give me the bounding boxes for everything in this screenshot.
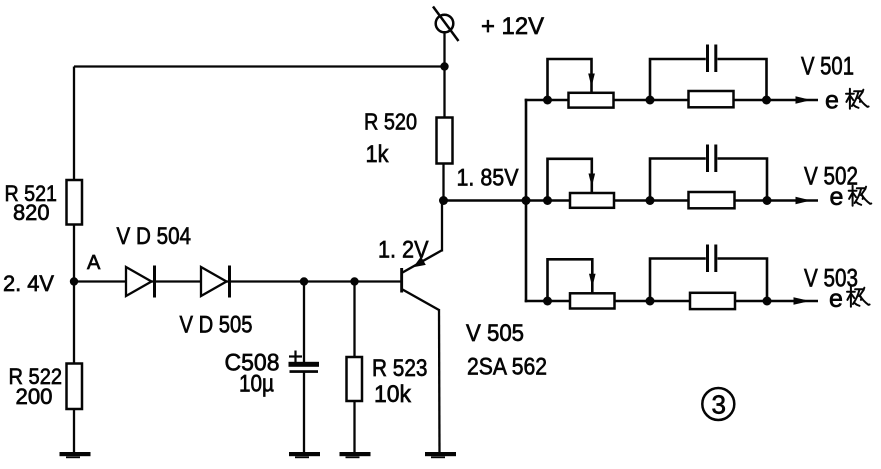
potentiometer row3 wiper arrow xyxy=(589,274,596,288)
figure number circled 3 xyxy=(702,388,734,420)
svg-text:2SA 562: 2SA 562 xyxy=(467,354,547,381)
svg-text:V 505: V 505 xyxy=(466,320,524,347)
wire C508 top lead xyxy=(303,282,305,363)
glyph ji row3 xyxy=(847,287,870,307)
ground for left rail xyxy=(60,452,91,458)
svg-text:V D 504: V D 504 xyxy=(117,223,192,250)
capacitor row3 xyxy=(650,245,767,302)
wire top rail horizontal xyxy=(74,65,445,67)
capacitor row2 xyxy=(650,145,767,201)
potentiometer row2 body xyxy=(570,193,614,208)
wire R520 to node xyxy=(442,164,444,201)
potentiometer row2 wiper loop xyxy=(548,159,592,201)
potentiometer row1 body xyxy=(569,93,614,108)
junction dot row3 mid xyxy=(646,297,655,306)
wire C508 bottom lead xyxy=(303,372,305,453)
svg-text:e: e xyxy=(829,285,843,313)
ground for C508 xyxy=(289,452,320,458)
node 1.85V junction dot xyxy=(439,196,448,205)
node R523 junction dot xyxy=(350,277,358,285)
junction dot row1 right xyxy=(762,96,771,105)
resistor row1 xyxy=(689,91,734,107)
wire left rail lower xyxy=(73,409,75,453)
wire R523 top lead xyxy=(353,282,355,359)
svg-text:1k: 1k xyxy=(366,141,390,168)
svg-text:10µ: 10µ xyxy=(239,371,274,398)
arrow output row3 xyxy=(794,297,811,305)
glyph ji row2 xyxy=(849,186,872,206)
svg-text:R 520: R 520 xyxy=(364,109,417,135)
capacitor C508 xyxy=(289,351,320,373)
wire base line from node A to transistor base xyxy=(74,280,401,282)
transistor V505 emitter lead vertical xyxy=(441,201,443,252)
resistor row2 xyxy=(689,192,735,208)
wire left rail middle xyxy=(73,225,75,365)
svg-text:R 523: R 523 xyxy=(372,355,428,382)
svg-text:1. 2V: 1. 2V xyxy=(378,237,429,264)
resistor R522 xyxy=(67,364,83,410)
svg-text:e: e xyxy=(825,87,839,115)
potentiometer row1 wiper arrow xyxy=(588,74,595,88)
arrow output row1 xyxy=(796,96,812,104)
ground for R523 xyxy=(340,452,371,458)
svg-text:V D 505: V D 505 xyxy=(180,312,253,339)
arrow output row2 xyxy=(796,197,812,205)
wire row3 line xyxy=(525,300,818,303)
junction dot row2 pot xyxy=(543,196,552,205)
junction dot row1 mid xyxy=(646,96,655,105)
resistor R520 xyxy=(437,118,453,164)
diode VD505 xyxy=(201,266,230,298)
svg-text:+ 12V: + 12V xyxy=(481,13,545,40)
node A junction dot xyxy=(70,277,78,285)
wire R523 bottom lead xyxy=(353,401,355,453)
potentiometer row3 body xyxy=(570,293,615,308)
wire right bus vertical xyxy=(525,99,528,302)
svg-text:10k: 10k xyxy=(374,381,412,408)
node C508 junction dot xyxy=(300,277,308,285)
wire collector lead xyxy=(438,309,441,453)
svg-text:2. 4V: 2. 4V xyxy=(3,271,54,296)
wire from 1.85V node to right network xyxy=(444,199,819,202)
transistor V505 xyxy=(400,251,441,311)
diode VD504 xyxy=(126,266,155,298)
potentiometer row1 wiper loop xyxy=(548,59,592,100)
junction dot row2 right xyxy=(763,196,772,205)
svg-text:V 501: V 501 xyxy=(801,53,854,81)
junction dot row3 pot xyxy=(543,297,552,306)
svg-text:e: e xyxy=(830,183,844,211)
wire from terminal to R520 xyxy=(443,32,445,118)
power terminal +12V xyxy=(433,7,459,42)
potentiometer row3 wiper loop xyxy=(548,259,593,301)
svg-text:1. 85V: 1. 85V xyxy=(457,165,520,192)
svg-text:A: A xyxy=(87,252,101,274)
glyph ji row1 xyxy=(846,89,869,109)
capacitor row1 xyxy=(650,45,767,101)
wire left rail upper xyxy=(73,67,75,182)
resistor R521 xyxy=(67,180,83,225)
svg-text:820: 820 xyxy=(13,200,50,225)
svg-text:3: 3 xyxy=(712,390,726,420)
ground for V505 collector xyxy=(425,452,456,458)
junction dot row1 pot xyxy=(543,96,552,105)
svg-text:200: 200 xyxy=(16,384,53,409)
resistor R523 xyxy=(347,357,363,401)
junction dot row3 right xyxy=(763,297,772,306)
junction dot top rail xyxy=(440,62,448,70)
resistor row3 xyxy=(690,293,735,309)
junction dot bus row2 xyxy=(522,196,531,205)
wire row1 line xyxy=(525,99,818,102)
junction dot row2 mid xyxy=(646,196,655,205)
potentiometer row2 wiper arrow xyxy=(589,174,596,188)
